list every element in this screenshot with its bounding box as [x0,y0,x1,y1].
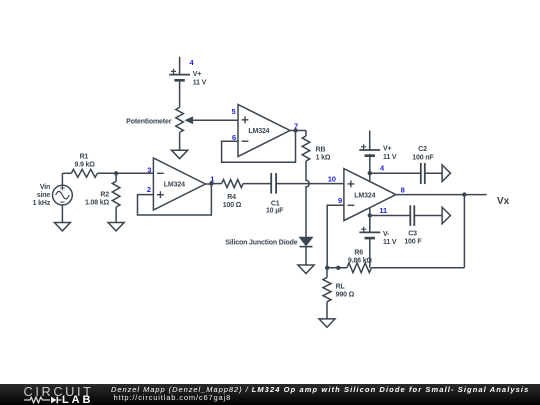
pin 2 label [147,185,151,194]
wire R4 to C1 [243,183,271,185]
svg-text:2: 2 [147,185,151,194]
svg-text:9.86 kΩ: 9.86 kΩ [348,258,373,265]
wire U3 - input (pin 9) down [327,205,344,267]
op-amp U2 LM324 (top) [238,105,290,157]
node 11 label [379,206,387,215]
wire U3 output [396,194,487,196]
wire C2 to ground [425,172,442,174]
svg-text:LM324: LM324 [248,128,269,135]
svg-text:RL: RL [336,284,346,291]
svg-text:100 nF: 100 nF [412,155,434,162]
pin 9 label [338,196,342,205]
source Vin sine 1 kHz [33,173,73,207]
svg-text:R4: R4 [227,194,236,201]
ground (Vin) [54,223,70,231]
svg-text:10: 10 [328,175,336,184]
wire C1 to U3 + input (node 10) [276,183,344,185]
pin 6 label [232,133,236,142]
node 10 label [328,175,336,184]
wire pin9 node to R6 [327,267,347,269]
node 10 wire into + [0,0,1,1]
svg-text:1 kHz: 1 kHz [33,200,51,207]
svg-text:9.9 kΩ: 9.9 kΩ [74,161,95,168]
svg-text:1: 1 [210,174,214,183]
pin 3 label [147,165,151,174]
wire U2 output to node 7 [290,130,306,132]
resistor R4 [222,180,243,210]
wire R2 to ground [115,207,117,222]
footer credit line 1 [111,386,529,394]
wire node to RL [326,268,328,278]
svg-text:sine: sine [37,192,51,199]
resistor RL [323,278,355,302]
svg-text:11 V: 11 V [383,239,397,246]
op-amp U3 LM324 (right) [344,169,396,221]
op-amp U1 LM324 (left) [153,158,205,210]
capacitor C1 [266,173,284,215]
ground (node 4, rotated) [442,165,450,182]
svg-text:10 µF: 10 µF [266,208,284,215]
wire R1 to U1 -in [97,172,153,174]
resistor R2 [85,181,120,207]
feedback wire U2 (output to - input) [222,131,296,163]
svg-text:LM324: LM324 [354,192,375,199]
svg-text:990 Ω: 990 Ω [336,292,355,299]
CircuitLab logo icon (resistor + diode) [24,396,64,404]
battery V2 V+ 11 V (right) [359,131,397,161]
svg-text:Vx: Vx [497,196,510,207]
wire node 11 to C3 [370,215,411,217]
wire R6 to feedback [371,267,464,269]
node 7 label [294,121,298,130]
CircuitLab logo text LAB [62,395,93,405]
svg-text:100 F: 100 F [404,239,422,246]
battery V1 V+ 11 V [169,57,206,87]
capacitor C3 [404,205,422,245]
potentiometer body [126,80,183,132]
wire U3 bottom pin to V- supply [369,208,371,233]
wire RL to ground [326,302,328,319]
svg-text:V+: V+ [193,71,202,78]
footer bar [0,384,540,405]
svg-text:R2: R2 [100,192,109,199]
node 8 label [401,186,405,195]
svg-text:1 kΩ: 1 kΩ [316,155,331,162]
wire Vin to ground [61,205,63,222]
svg-text:3: 3 [147,165,151,174]
ground (potentiometer) [172,150,188,159]
wire C3 to ground [414,215,442,217]
potentiometer wiper arrow [186,117,238,123]
CircuitLab logo text CIRCUIT [24,386,94,399]
svg-text:RB: RB [316,147,326,154]
wire node1 to R4 [211,183,221,185]
svg-text:R6: R6 [354,250,363,257]
svg-text:LM324: LM324 [164,182,185,189]
wire junction to R2 [115,173,117,181]
battery V3 V- 11 V [359,216,396,247]
wire U1 output [205,183,211,185]
svg-text:11 V: 11 V [193,80,207,87]
junction dot (RL node) [336,266,340,270]
svg-text:Potentiometer: Potentiometer [126,118,172,125]
node 1 label [210,174,214,183]
svg-text:8: 8 [401,186,405,195]
wire V3 to R6 node [369,238,371,268]
svg-text:V-: V- [383,231,390,238]
node 4 label (at V1) [189,58,194,67]
node 4 label (supply) [380,164,385,173]
ground (R2) [108,223,124,231]
svg-text:V+: V+ [383,145,392,152]
wire pin5 input [0,0,1,1]
svg-text:9: 9 [338,196,342,205]
capacitor C2 [412,146,434,184]
wire RB down with hop over node10 wire [306,161,309,237]
label Vx [497,196,510,207]
ground (node 11, rotated) [442,207,450,224]
svg-text:Silicon Junction Diode: Silicon Junction Diode [225,240,297,247]
svg-text:4: 4 [380,164,385,173]
feedback wire U1 (output to + input) [138,184,212,215]
wire V+ supply to U3 top pin [369,154,371,182]
ground (RL) [319,319,335,327]
wire node7 to RB [305,131,307,137]
junction dot (pin 9 node) [325,266,329,270]
silicon junction diode D1 [225,237,312,265]
node 7 junction dot [293,128,297,132]
svg-text:C3: C3 [408,230,417,237]
node junction R1/R2 [114,171,118,175]
pin 5 label [231,107,235,116]
feedback wire U3 output to R6 [463,195,465,268]
svg-text:11 V: 11 V [383,154,397,161]
wire pot to ground [179,132,181,150]
node 4 junction dot (supply) [368,171,372,175]
resistor RB [302,136,331,162]
svg-text:R1: R1 [80,153,89,160]
svg-text:C2: C2 [418,146,427,153]
svg-text:4: 4 [189,58,194,67]
node 11 junction dot [368,213,372,217]
svg-text:100 Ω: 100 Ω [223,202,242,209]
resistor R1 [71,153,97,177]
ground (diode) [298,265,314,274]
svg-text:11: 11 [379,206,387,215]
svg-text:1.08 kΩ: 1.08 kΩ [85,200,110,207]
output junction dot [462,192,466,196]
resistor R6 [347,250,373,273]
svg-text:C1: C1 [271,200,280,207]
svg-text:5: 5 [231,107,235,116]
footer credit line 2 [114,394,232,402]
svg-text:7: 7 [294,121,298,130]
svg-text:Vin: Vin [40,184,50,191]
wire node 4 to C2 [370,172,421,174]
node 1 junction dot [209,181,213,185]
